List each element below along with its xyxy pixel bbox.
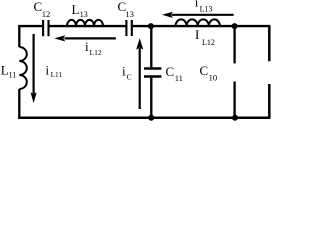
label i_C: [122, 64, 132, 82]
wire left edge lower: [18, 89, 20, 119]
label L13: [72, 2, 88, 19]
label C13: [118, 0, 134, 19]
label C12: [34, 0, 51, 19]
svg-text:13: 13: [80, 10, 88, 19]
wire from C13 to right corner: [133, 25, 271, 27]
node bottom C11 junction: [148, 115, 154, 121]
svg-text:C: C: [200, 63, 209, 78]
svg-text:L11: L11: [51, 70, 63, 79]
arrow i_L12: [54, 35, 116, 41]
arrow i_C: [136, 38, 143, 109]
label L11: [1, 63, 17, 80]
label C10: [200, 63, 218, 82]
wire right edge upper: [268, 26, 271, 61]
svg-text:i: i: [195, 0, 199, 9]
svg-text:i: i: [46, 63, 50, 78]
node bottom C10 junction: [232, 115, 238, 121]
label C11: [166, 64, 183, 83]
wire C10 branch upper: [233, 26, 235, 63]
wire bottom: [18, 117, 270, 120]
svg-text:13: 13: [125, 9, 133, 19]
capacitor C13: [126, 20, 131, 36]
label i_L12: [85, 39, 102, 57]
wire C11 branch lower: [150, 78, 152, 118]
label i_L11: [46, 63, 63, 80]
svg-text:L12: L12: [202, 38, 215, 47]
wire C11 branch upper: [150, 26, 152, 67]
arrow i_L11: [31, 34, 37, 103]
svg-text:L13: L13: [200, 5, 213, 14]
svg-text:L: L: [1, 63, 9, 78]
svg-text:11: 11: [9, 71, 17, 80]
wire top-left segment: [18, 25, 42, 27]
svg-text:10: 10: [209, 72, 218, 82]
arrow i_L13: [162, 12, 234, 18]
svg-text:C: C: [127, 73, 132, 82]
svg-text:C: C: [166, 64, 175, 79]
wire left edge upper: [18, 25, 20, 47]
svg-text:i: i: [85, 39, 89, 54]
capacitor C12: [43, 20, 48, 36]
svg-text:i: i: [122, 64, 126, 79]
svg-text:11: 11: [175, 73, 183, 83]
inductor L11: [19, 47, 27, 89]
node top C11 junction: [148, 23, 154, 29]
wire C10 branch lower: [233, 82, 235, 118]
inductor L12: [176, 19, 220, 26]
wire right edge lower: [268, 84, 271, 118]
node top C10 junction: [232, 23, 238, 29]
svg-text:12: 12: [42, 9, 51, 19]
capacitor C11: [144, 69, 161, 77]
svg-text:I: I: [195, 27, 199, 42]
inductor L13: [67, 20, 103, 26]
label I_L12: [195, 27, 215, 47]
wire between C12 and C13: [49, 25, 125, 27]
label i_L13: [195, 0, 213, 14]
svg-text:L: L: [72, 2, 80, 17]
svg-text:L12: L12: [90, 48, 102, 57]
